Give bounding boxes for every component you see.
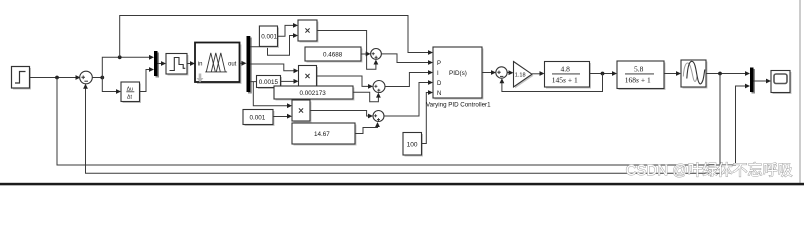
step source block — [12, 67, 32, 90]
wire fuzzy to demux — [240, 61, 247, 66]
sum A (P) — [371, 49, 382, 60]
wire error to PID u port — [120, 16, 433, 58]
svg-text:100: 100 — [407, 141, 418, 148]
svg-text:5.8: 5.8 — [634, 65, 644, 74]
right edge line — [800, 0, 801, 183]
node sum1 output — [100, 76, 104, 80]
wire quantizer to fuzzy controller — [187, 61, 195, 66]
wire mux2 to scope — [754, 79, 772, 84]
wire product2 to sumB left — [317, 76, 374, 89]
svg-text:out: out — [228, 62, 237, 68]
derivative block du/dt — [121, 82, 141, 103]
svg-text:0.001: 0.001 — [261, 34, 277, 41]
svg-text:in: in — [198, 62, 203, 68]
wire demux out2 to product2 in1 — [250, 64, 298, 73]
wire sum2 to gain — [507, 70, 513, 75]
arrow demux out3 to product3 in1 — [287, 103, 292, 108]
wire product3 to sumC left — [310, 111, 373, 119]
product block 2 — [299, 66, 319, 89]
wire outer feedback to sum1 — [83, 74, 720, 174]
wire error up to mux1 in1 — [102, 55, 154, 78]
wire sum1 output to branch node — [92, 77, 102, 79]
wire derivative to mux1 in2 — [140, 67, 155, 91]
transport delay block — [681, 60, 708, 89]
bottom window bar — [0, 183, 804, 186]
fuzzy logic controller block — [195, 43, 242, 85]
wire transport delay to mux2 — [706, 71, 750, 76]
node plant output — [718, 72, 722, 76]
mux Mux1 — [154, 51, 159, 78]
svg-text:Δt: Δt — [127, 94, 132, 100]
svg-text:Varying PID Controller1: Varying PID Controller1 — [426, 102, 491, 109]
wire 14.67 to sumC bottom — [355, 122, 380, 134]
wire product1 to sumA bottom — [317, 31, 378, 70]
constant 0.0015 — [257, 76, 283, 90]
svg-text:145s + 1: 145s + 1 — [552, 76, 578, 85]
gain 1.18 triangle — [514, 62, 534, 89]
wire demux out1 to product1 in2 — [250, 33, 298, 55]
mux Mux2 — [750, 68, 755, 94]
wire 0.4688 to sumA — [361, 52, 371, 57]
wire gain to TF1 — [532, 71, 545, 76]
constant 14.67 — [292, 123, 357, 146]
constant 0.4688 — [305, 47, 363, 63]
wire sumB to PID I — [385, 70, 433, 86]
svg-text:0.001: 0.001 — [250, 115, 266, 122]
constant 0.001 (Kd scale) — [243, 110, 275, 127]
wire mux1 to quantizer — [158, 61, 167, 66]
sum C (D) — [373, 111, 384, 122]
svg-text:14.67: 14.67 — [314, 131, 330, 138]
demux bar — [247, 36, 252, 94]
PID controller block — [433, 47, 484, 100]
node TF1 output — [601, 72, 605, 76]
wire reference feedback to mux2 — [57, 78, 748, 166]
svg-text:0.4688: 0.4688 — [323, 52, 343, 59]
svg-text:168s + 1: 168s + 1 — [625, 76, 651, 85]
wire 0.002173 to sumB bottom — [353, 92, 381, 102]
sum junction 2 — [496, 67, 507, 78]
node step branch — [55, 76, 59, 80]
product block 1 — [298, 20, 319, 43]
product block 3 — [292, 100, 312, 123]
wire demux out3 branch — [250, 82, 290, 106]
wire step to sum1 — [30, 75, 81, 80]
wire sumA to PID P — [381, 54, 433, 65]
transfer function 5.8/(168s+1) — [617, 61, 666, 90]
wire 100 to PID N — [422, 90, 434, 143]
wire TF2 to transport delay — [664, 71, 681, 76]
wire error down to derivative — [102, 78, 121, 94]
constant 0.001 (Kp scale) — [259, 26, 279, 48]
wire constant 0.001 to product1 in1 — [278, 23, 299, 36]
sum junction 1 — [80, 71, 93, 84]
wire 0.0015 to product2 in2 — [281, 79, 299, 84]
svg-text:PID(s): PID(s) — [449, 70, 467, 77]
wire PID to sum2 — [482, 70, 496, 75]
svg-text:P: P — [437, 61, 441, 67]
svg-text:1.18: 1.18 — [515, 72, 526, 78]
sum B (I) — [373, 81, 385, 93]
scope block — [771, 71, 792, 95]
svg-text:D: D — [437, 81, 442, 87]
svg-text:N: N — [437, 91, 441, 97]
transfer function 4.8/(145s+1) — [545, 62, 592, 89]
constant 100 — [403, 133, 423, 157]
svg-text:CSDN @叶绿体不忘呼吸: CSDN @叶绿体不忘呼吸 — [626, 162, 793, 179]
wire inner feedback to sum2 — [500, 74, 603, 92]
quantizer block (staircase icon) — [166, 54, 189, 76]
wire sumC to PID D — [384, 80, 433, 116]
node error branch — [118, 55, 122, 59]
wire 0.001 to product3 in2 — [273, 114, 292, 119]
constant 0.002173 — [274, 86, 355, 101]
svg-text:0.0015: 0.0015 — [259, 79, 279, 86]
fuzzy controller gray drop arrow — [197, 74, 204, 83]
wire TF1 to TF2 — [590, 71, 618, 76]
svg-text:4.8: 4.8 — [561, 65, 571, 74]
svg-text:0.002173: 0.002173 — [300, 90, 327, 97]
